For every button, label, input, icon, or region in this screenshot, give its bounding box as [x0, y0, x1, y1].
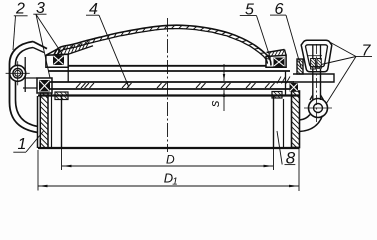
- svg-text:s: s: [207, 100, 222, 107]
- svg-text:1: 1: [18, 136, 27, 153]
- svg-text:2: 2: [15, 0, 25, 17]
- svg-text:D: D: [166, 153, 175, 167]
- svg-text:1: 1: [172, 176, 178, 187]
- svg-text:4: 4: [89, 1, 98, 18]
- svg-text:5: 5: [245, 1, 254, 18]
- svg-text:3: 3: [36, 0, 45, 17]
- svg-text:8: 8: [286, 149, 296, 168]
- svg-text:6: 6: [275, 1, 284, 18]
- svg-text:7: 7: [362, 42, 372, 59]
